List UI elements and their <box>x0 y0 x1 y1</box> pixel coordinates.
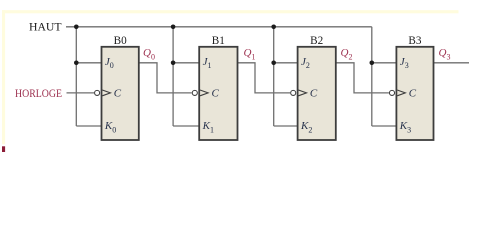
wire K3 input <box>372 125 397 127</box>
clock bubble B1 <box>192 90 197 95</box>
junction dot J3 <box>370 61 375 66</box>
wire HAUT drop to B3 <box>371 27 373 126</box>
pin C B3 edge-trigger arrow <box>397 90 405 96</box>
svg-text:C: C <box>310 88 318 100</box>
wire HAUT drop to B1 <box>172 27 174 126</box>
wire Q0 to clock input B1 <box>139 63 192 93</box>
clock bubble B2 <box>291 90 296 95</box>
svg-text:B2: B2 <box>310 35 323 47</box>
pin C B1 edge-trigger arrow <box>200 90 208 96</box>
wire K1 input <box>173 125 199 127</box>
svg-text:C: C <box>114 88 122 100</box>
wire J3 input <box>372 62 397 64</box>
pin C B2 edge-trigger arrow <box>298 90 306 96</box>
wire K0 input <box>76 125 101 127</box>
svg-text:HORLOGE: HORLOGE <box>15 88 62 100</box>
svg-text:C: C <box>212 88 220 100</box>
svg-text:C: C <box>409 88 417 100</box>
junction dot HAUT/B1 drop <box>171 25 176 30</box>
svg-text:B1: B1 <box>212 35 225 47</box>
wire HAUT rail <box>66 26 372 28</box>
junction dot J1 <box>171 61 176 66</box>
clock bubble B0 <box>95 90 100 95</box>
svg-text:B0: B0 <box>114 35 127 47</box>
wire K2 input <box>274 125 298 127</box>
flip-flop B1 box <box>199 47 237 140</box>
wire J0 input <box>76 62 101 64</box>
junction dot J2 <box>271 61 276 66</box>
wire J1 input <box>173 62 199 64</box>
junction dot J0 <box>74 61 79 66</box>
wire HORLOGE to clock input B0 <box>67 92 95 94</box>
wire Q3 output <box>434 62 470 64</box>
junction dot HAUT/B0 drop <box>74 25 79 30</box>
wire Q2 to clock input B3 <box>336 63 389 93</box>
flip-flop B2 box <box>298 47 336 140</box>
svg-text:B3: B3 <box>408 35 421 47</box>
clock bubble B3 <box>389 90 394 95</box>
wire HAUT drop to B0 <box>75 27 77 126</box>
wire J2 input <box>274 62 298 64</box>
wire HAUT drop to B2 <box>273 27 275 126</box>
svg-text:HAUT: HAUT <box>29 21 62 33</box>
pin C B0 edge-trigger arrow <box>102 90 110 96</box>
junction dot HAUT/B2 drop <box>271 25 276 30</box>
flip-flop B3 box <box>396 47 433 140</box>
wire Q1 to clock input B2 <box>238 63 291 93</box>
flip-flop B0 box <box>102 47 139 140</box>
